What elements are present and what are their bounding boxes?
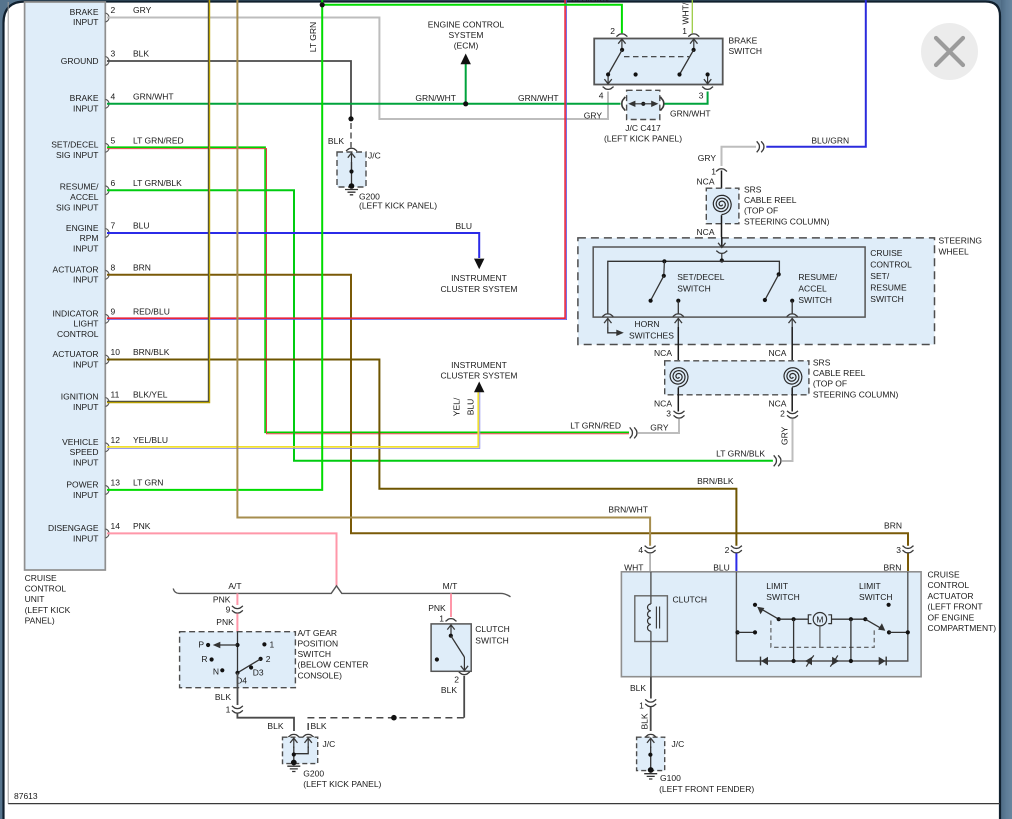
svg-text:(LEFT KICK PANEL): (LEFT KICK PANEL) (303, 779, 381, 789)
node junction BLK (348, 116, 353, 121)
U1 pin 4 BRAKE INPUT (70, 91, 174, 113)
connector )) LT GRN/BLK to GRY (774, 455, 777, 466)
svg-text:BLK: BLK (328, 136, 344, 146)
svg-text:4: 4 (599, 91, 604, 101)
wire RED/BLU pin9 (blue stripe) (107, 0, 567, 320)
svg-text:GRN/WHT: GRN/WHT (670, 109, 711, 119)
svg-text:BLK: BLK (267, 721, 283, 731)
wire GRN/WHT branch up to ECM (465, 62, 467, 104)
S1 right switch (brake input) (677, 39, 697, 77)
ground G200 (bottom) (287, 766, 381, 789)
wire BLK clutch switch to J/C dashed (308, 718, 464, 731)
wire BRN/BLK pin10 to actuator pin2 (107, 360, 736, 546)
S4 pin 2 connector arc (441, 672, 470, 695)
U1 pin 3 GROUND (61, 49, 150, 67)
svg-text:PNK: PNK (213, 594, 231, 604)
actuator connector pin 2 (713, 545, 742, 573)
actuator connector pin 3 (883, 545, 913, 573)
clutch switch S4 connector 1 (439, 613, 456, 623)
wire BRN/WHT from top to actuator pin4 (237, 0, 650, 546)
S1 pin 2 connector arc (616, 34, 627, 37)
svg-text:5: 5 (111, 135, 116, 145)
S1 pin 1 connector arc (688, 34, 699, 37)
wire BLK/YEL pin11 (yellow stripe) (107, 0, 210, 403)
cruise control actuator A1 (621, 570, 996, 677)
J/C C417 junction connector (604, 90, 682, 143)
svg-text:HORN: HORN (635, 319, 660, 329)
clutch coil L1 (635, 572, 707, 677)
S1 pin 3 contact and arrow (704, 72, 711, 83)
node junction on BLK dashed (391, 715, 397, 721)
svg-text:2: 2 (111, 5, 116, 15)
U1 pin 9 INDICATOR LIGHT CONTROL (53, 306, 170, 339)
svg-text:LT GRN: LT GRN (308, 22, 318, 52)
SRS cable reel 2 (top of steering column) (665, 358, 899, 412)
svg-text:1: 1 (639, 700, 644, 710)
svg-text:WHT: WHT (624, 562, 643, 572)
S2 bus wire (608, 261, 780, 313)
svg-text:J/C: J/C (368, 151, 381, 161)
svg-text:LT GRN/RED: LT GRN/RED (570, 421, 621, 431)
diode D1 (761, 657, 769, 666)
svg-text:BLU: BLU (466, 399, 476, 416)
svg-text:1: 1 (439, 613, 444, 623)
S3 contact D3 (249, 665, 264, 677)
svg-text:SWITCHES: SWITCHES (629, 331, 674, 341)
wire BLU pin7 to instrument cluster (107, 233, 479, 258)
svg-text:YEL/: YEL/ (452, 397, 462, 416)
wire RED/BLU pin9 (red) (107, 0, 565, 318)
svg-text:6: 6 (111, 178, 116, 188)
svg-text:3: 3 (111, 49, 116, 59)
wire BLK/YEL pin11 (black) (107, 0, 208, 401)
svg-text:G100: G100 (660, 773, 681, 783)
wire LT GRN/BLK pin6 (107, 190, 773, 460)
S3 contact 2 (259, 654, 271, 664)
diode D4 (879, 657, 887, 666)
svg-text:SET/DECELSIG INPUT: SET/DECELSIG INPUT (51, 140, 99, 160)
svg-text:A/T: A/T (228, 581, 241, 591)
svg-text:1: 1 (270, 640, 275, 650)
svg-text:NCA: NCA (768, 348, 786, 358)
svg-text:2: 2 (266, 654, 271, 664)
ground G200 (top) (345, 151, 437, 211)
svg-text:WHT/: WHT/ (681, 2, 691, 24)
brake switch S1 (594, 36, 762, 85)
wire PNK pin14 to A/T-M/T bracket (107, 533, 337, 586)
wire BLK actuator to G100 (650, 677, 652, 699)
motor control sub-circuit box (736, 572, 907, 661)
svg-text:D3: D3 (253, 668, 264, 678)
svg-text:GRY: GRY (584, 110, 603, 120)
svg-text:BRN: BRN (883, 562, 901, 572)
A/T gear position switch S3 (180, 628, 369, 688)
arrow YEL/BLU up to instrument cluster (474, 382, 484, 393)
svg-text:LT GRN: LT GRN (133, 477, 163, 487)
wire LT GRN/RED pin5 (red stripe) (107, 149, 629, 434)
wire WHT into actuator (649, 553, 651, 572)
wire GRN/WHT brake switch pin1 from top (691, 0, 693, 33)
wire BLU/GRN from top (766, 0, 866, 147)
svg-text:2: 2 (780, 409, 785, 419)
wire GRN/WHT from J/C C417 to brake switch pin3 (664, 92, 708, 104)
svg-text:INSTRUMENTCLUSTER SYSTEM: INSTRUMENTCLUSTER SYSTEM (441, 273, 518, 294)
wire BLK from S4 pin 2 (463, 676, 465, 718)
svg-text:2: 2 (725, 545, 730, 555)
svg-text:CLUTCH: CLUTCH (673, 595, 707, 605)
svg-text:2: 2 (610, 26, 615, 36)
svg-text:M/T: M/T (443, 581, 458, 591)
svg-text:J/C: J/C (672, 739, 685, 749)
svg-text:G200: G200 (303, 768, 324, 778)
mechanical link dashed motor (771, 621, 874, 648)
svg-text:NCA: NCA (654, 399, 672, 409)
svg-text:GRY: GRY (780, 426, 790, 445)
wire GRY pin2 to brake switch pin4 (107, 18, 608, 120)
SRS cable reel 1 (top of steering column) (697, 167, 830, 238)
U1 pin 14 DISENGAGE INPUT (48, 521, 151, 543)
svg-text:GROUND: GROUND (61, 56, 99, 66)
S2 input pin from reel (716, 237, 727, 263)
motor M1 (779, 613, 866, 626)
wire BRN pin8 to actuator pin3 (107, 275, 908, 546)
svg-text:BRAKESWITCH: BRAKESWITCH (729, 36, 763, 57)
steering wheel assembly (578, 236, 982, 345)
S2 resume/accel output pin arc and arrow (787, 314, 798, 360)
svg-text:9: 9 (226, 605, 231, 615)
svg-text:J/C: J/C (323, 739, 336, 749)
svg-text:BRAKEINPUT: BRAKEINPUT (70, 7, 99, 27)
svg-text:NCA: NCA (768, 399, 786, 409)
connector 1 below S3 (226, 705, 243, 715)
wire PNK to A/T gear position switch (236, 593, 238, 605)
U1 pin 8 ACTUATOR INPUT (53, 262, 151, 284)
svg-text:NCA: NCA (654, 348, 672, 358)
S2 resume/accel switch (763, 272, 838, 314)
svg-text:7: 7 (111, 221, 116, 231)
diode D2 (one-way) (805, 655, 814, 666)
svg-text:GRY: GRY (133, 5, 152, 15)
motor stem (819, 626, 821, 647)
node junction GRN/WHT (463, 101, 468, 106)
wire BLK to J/C G100 (650, 707, 652, 731)
S3 contact 1 (262, 640, 274, 650)
svg-text:BLU: BLU (713, 562, 730, 572)
U1 pin 2 BRAKE INPUT (70, 5, 152, 27)
clutch switch S4 (431, 624, 510, 671)
svg-text:PNK: PNK (428, 603, 446, 613)
wire PNK into A/T switch (236, 614, 238, 633)
svg-text:BRN/BLK: BRN/BLK (133, 347, 170, 357)
wire BLK pin3 (107, 61, 351, 119)
svg-text:BLK/YEL: BLK/YEL (133, 390, 168, 400)
wire LT GRN/RED pin5 (green) (107, 147, 629, 432)
cruise control set/resume switch S2 (593, 247, 912, 317)
svg-text:1: 1 (711, 167, 716, 177)
svg-text:11: 11 (111, 390, 120, 400)
close button (921, 23, 978, 80)
wire YEL/BLU pin12 (blue stripe) (107, 390, 480, 448)
svg-text:3: 3 (666, 409, 671, 419)
J/C G200 junction (top, left kick panel) (337, 148, 366, 189)
wire BLU into actuator (735, 553, 737, 572)
svg-text:12: 12 (111, 435, 121, 445)
svg-text:P: P (198, 640, 204, 650)
wire LT GRN pin13 up and over to brake switch pin2 (107, 0, 622, 490)
svg-text:1: 1 (682, 26, 687, 36)
connector 1 G100 (639, 699, 656, 729)
U1 pin 12 VEHICLE SPEED INPUT (62, 435, 168, 468)
wire BRN into actuator (907, 553, 909, 572)
svg-text:(LEFT FRONT FENDER): (LEFT FRONT FENDER) (659, 784, 754, 794)
U1 pin 5 SET/DECEL SIG INPUT (51, 135, 183, 160)
svg-text:BLU: BLU (133, 221, 150, 231)
arrow BLU down to instrument cluster (474, 259, 484, 270)
actuator connector pin 4 (624, 545, 655, 573)
limit switch left (753, 603, 781, 622)
U1 pin 11 IGNITION INPUT (61, 390, 168, 412)
S3 contact R (201, 654, 213, 664)
cruise control unit U1 (left kick panel) (25, 2, 106, 625)
svg-text:N: N (213, 666, 219, 676)
svg-text:4: 4 (638, 545, 643, 555)
svg-text:NCA: NCA (697, 227, 715, 237)
S3 contact N (213, 666, 225, 676)
wire YEL/BLU pin12 (yellow) (107, 390, 478, 447)
svg-text:1: 1 (226, 705, 231, 715)
S1 center contact (634, 72, 638, 76)
svg-text:10: 10 (111, 347, 121, 357)
connector 9 A/T (213, 594, 243, 614)
svg-text:LT GRN/RED: LT GRN/RED (133, 135, 184, 145)
svg-text:87613: 87613 (14, 791, 38, 801)
wire BLK from connector to J/C G200 (237, 714, 294, 732)
svg-text:M: M (816, 614, 823, 624)
connector pin 2 below reel 2 (780, 409, 798, 419)
svg-text:8: 8 (111, 262, 116, 272)
J/C G100 junction (637, 734, 685, 773)
svg-text:BLU/GRN: BLU/GRN (571, 0, 609, 5)
wire GRY jumper to SRS reel pin2 (782, 419, 793, 461)
arrow to engine control system (461, 54, 471, 65)
U1 pin 13 POWER INPUT (66, 477, 163, 499)
svg-text:GRY: GRY (650, 423, 669, 433)
svg-text:GRN/WHT: GRN/WHT (415, 93, 456, 103)
wire PNK M/T drop (450, 593, 452, 617)
wire GRN/WHT pin4 to J/C C417 (107, 103, 621, 105)
svg-text:9: 9 (111, 306, 116, 316)
S2 horn pin arc and arrow (602, 314, 674, 341)
svg-text:14: 14 (111, 521, 121, 531)
S1 mechanical link dashed (624, 56, 689, 58)
svg-text:BLU: BLU (455, 221, 472, 231)
U1 pin 7 ENGINE RPM INPUT (66, 221, 150, 254)
connector )) BLU/GRN to GRY (757, 141, 760, 152)
svg-text:BLK: BLK (133, 49, 149, 59)
connector pin 3 below reel 2 (666, 409, 684, 419)
svg-text:3: 3 (699, 91, 704, 101)
svg-text:GRN/WHT: GRN/WHT (518, 93, 559, 103)
svg-text:INSTRUMENTCLUSTER SYSTEM: INSTRUMENTCLUSTER SYSTEM (441, 360, 518, 381)
svg-text:CLUTCHSWITCH: CLUTCHSWITCH (475, 624, 509, 646)
svg-text:4: 4 (111, 91, 116, 101)
S1 pin 4 connector arc (603, 87, 614, 90)
svg-text:BLK: BLK (215, 692, 231, 702)
svg-text:BRN: BRN (884, 521, 902, 531)
S3 lever and contact D4 (235, 659, 260, 686)
U1 pin 10 ACTUATOR INPUT (53, 347, 170, 369)
wire GRY to SRS reel pin1 (722, 147, 757, 166)
svg-text:GRY: GRY (698, 153, 717, 163)
wire GRY jumper to SRS reel pin3 (638, 419, 679, 433)
svg-text:R: R (201, 654, 207, 664)
vertical motor left to bottom row (792, 619, 796, 663)
svg-text:PNK: PNK (133, 521, 151, 531)
svg-text:NCA: NCA (697, 177, 715, 187)
diode D3 (one-way) (830, 655, 839, 666)
S2 set/decel output pin arc and arrow (673, 314, 684, 360)
svg-text:BLK: BLK (630, 683, 646, 693)
svg-text:BLK: BLK (441, 685, 457, 695)
node junction LT GRN top (320, 2, 325, 7)
svg-text:BRN: BRN (133, 262, 151, 272)
svg-text:PNK: PNK (216, 617, 234, 627)
svg-text:GRN/WHT: GRN/WHT (133, 91, 174, 101)
A/T - M/T split bracket (173, 581, 510, 597)
S3 output wire BLK (237, 673, 239, 705)
svg-text:BRN/BLK: BRN/BLK (697, 476, 734, 486)
ground G100 (644, 773, 754, 794)
J/C G200 junction (bottom, left kick panel) (283, 734, 336, 765)
svg-text:YEL/BLU: YEL/BLU (133, 435, 168, 445)
svg-text:BRAKEINPUT: BRAKEINPUT (70, 93, 99, 113)
svg-text:3: 3 (896, 545, 901, 555)
svg-text:RED/BLU: RED/BLU (133, 306, 170, 316)
S3 common and P arrow (198, 632, 239, 673)
svg-text:BLK: BLK (311, 721, 327, 731)
U1 pin 6 RESUME/ACCEL SIG INPUT (56, 178, 182, 213)
BLU feed stub (735, 630, 757, 634)
wire BLK dashed drop to J/C G200 (350, 123, 352, 148)
svg-text:LT GRN/BLK: LT GRN/BLK (133, 178, 182, 188)
limit switch right (863, 603, 910, 635)
svg-text:BRN/WHT: BRN/WHT (608, 505, 648, 515)
svg-text:(LEFT KICK PANEL): (LEFT KICK PANEL) (359, 200, 437, 210)
S1 pin 3 connector arc (702, 87, 713, 90)
svg-text:2: 2 (454, 674, 459, 684)
connector )) LT GRN/RED to GRY (630, 427, 633, 438)
svg-text:BLK: BLK (640, 713, 650, 729)
vertical motor right to bottom row (849, 619, 853, 663)
svg-text:13: 13 (111, 477, 121, 487)
svg-text:LT GRN/BLK: LT GRN/BLK (716, 449, 765, 459)
S2 set/decel switch (649, 259, 725, 313)
svg-text:BLU/GRN: BLU/GRN (811, 136, 849, 146)
S1 left switch (brake input) (604, 39, 625, 84)
